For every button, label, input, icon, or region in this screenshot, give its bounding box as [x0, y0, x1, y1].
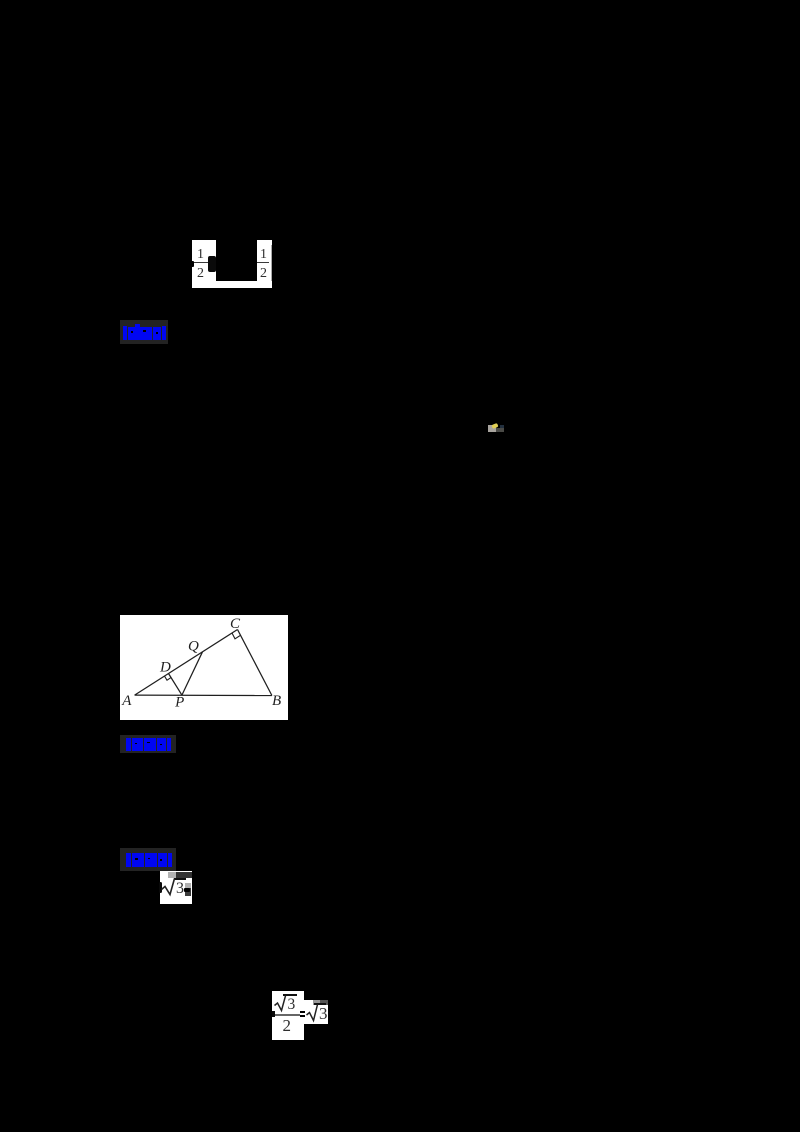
svg-text:A: A [121, 693, 132, 709]
svg-text:B: B [272, 693, 281, 709]
svg-text:Q: Q [188, 639, 199, 655]
svg-text:P: P [174, 695, 184, 711]
svg-text:C: C [230, 616, 241, 632]
svg-text:D: D [159, 660, 171, 676]
